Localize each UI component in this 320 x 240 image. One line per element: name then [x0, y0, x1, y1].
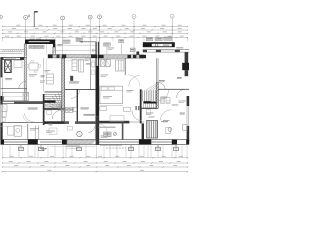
bottom witness line x=176: [175, 145, 177, 158]
txt living l1: [29, 74, 37, 76]
cab dining: [67, 126, 72, 130]
bottom wall pier e: [172, 140, 177, 145]
label box c1: [63, 40, 70, 43]
stair right wall right unit upper: [156, 58, 158, 83]
small icons bottom right: [104, 132, 112, 137]
txt hall l1: [85, 59, 91, 61]
stair right wall left unit: [62, 58, 65, 123]
bottom witness line x=2.5: [2, 145, 4, 158]
room label left bedroom: [5, 78, 12, 80]
top witness stub x=55: [54, 38, 56, 42]
utility box below wall at x=79: [77, 145, 82, 151]
bay window slit left unit: [29, 41, 50, 42]
pergola ticks: [2, 49, 23, 52]
bottom wall pier d: [139, 139, 151, 144]
txt kitchen b1: [30, 128, 39, 130]
utility box below wall at x=131: [129, 145, 134, 151]
bed left unit: [3, 92, 29, 100]
top witness stub x=96.5: [96, 38, 98, 42]
axis leader line at x=172.2: [171, 18, 173, 42]
long witness x46.8: [46, 38, 48, 55]
bay right jamb wall: [53, 44, 56, 55]
bay label 2: [34, 45, 39, 48]
top dimension line 4: [2, 37, 188, 39]
bottom witness line x=126: [125, 145, 127, 158]
tiny text above dashed line: [100, 144, 122, 147]
room label kitchen: [28, 108, 38, 110]
door arc right unit hall: [132, 111, 142, 121]
grid bubble 3 right: [98, 15, 102, 19]
txt right wall r: [179, 101, 187, 103]
txt room r1: [161, 97, 168, 99]
door arc right unit top: [158, 82, 166, 89]
level marker: [40, 149, 47, 152]
axis leader line at x=90.2: [89, 19, 91, 54]
txt top l mid: [58, 44, 64, 46]
bedroom bottom wall left: [1, 88, 28, 90]
hall label r3: [161, 120, 168, 123]
top dimension ticks row 3: [2, 33, 188, 34]
top dimension line 1: [2, 26, 188, 28]
door arc bottom room right: [99, 124, 107, 132]
bottom dimension ticks row 4: [2, 171, 188, 172]
bottom dimension texts row 1: [10, 155, 183, 158]
right wall door opening arc: [177, 89, 186, 98]
party wall edge lines: [96, 42, 99, 145]
left wall window upper: [1, 77, 3, 96]
round fixture right unit bottom: [168, 128, 172, 132]
bottom dimension line 2: [2, 162, 188, 164]
bottom witness line x=117: [116, 145, 118, 158]
room label hall centre: [84, 114, 96, 116]
hall bottom wall left unit: [1, 121, 96, 124]
txt bottom r1: [101, 136, 111, 138]
stair bottom wall left unit: [44, 108, 65, 110]
top wall band left unit: [48, 55, 97, 58]
stair left wall right unit: [140, 89, 142, 108]
bath wall x77 left unit: [77, 89, 78, 122]
top dimension texts row 1: [16, 24, 182, 27]
shaft block left bedroom: [5, 60, 11, 72]
bottom witness line x=148: [147, 145, 149, 158]
hall label r5: [172, 104, 179, 107]
round table left unit: [77, 131, 82, 136]
door arc dining left unit: [88, 126, 94, 132]
bay top wall left unit: [25, 40, 55, 45]
bay left jamb wall: [24, 44, 26, 58]
porch line bottom left: [50, 145, 96, 147]
bottom witness line x=144: [143, 145, 145, 158]
hall small rect right unit: [146, 110, 151, 115]
utility box below wall at x=41: [39, 145, 44, 151]
axis leader line at x=99.5: [99, 19, 101, 57]
bottom witness line x=38: [37, 145, 39, 158]
bottom dimension line 4: [2, 171, 188, 173]
wall x142 bottom right unit: [142, 123, 144, 139]
label box c2: [76, 38, 82, 41]
room label pok left: [81, 108, 89, 110]
bath fixtures left unit: [65, 107, 77, 112]
bottom witness line x=55: [54, 145, 56, 158]
bottom witness line x=28: [27, 145, 29, 158]
utility box below wall at x=21: [19, 145, 24, 151]
dining table living left: [27, 61, 41, 72]
wardrobe living left: [46, 58, 53, 84]
top witness stub x=155: [154, 38, 156, 42]
party wall upper: [96, 42, 98, 66]
axis leader line at x=134.0: [133, 19, 135, 55]
top witness stub x=144: [143, 38, 145, 42]
bottom wall window glass right1: [99, 141, 139, 142]
top band pier g: [133, 55, 136, 58]
keynote leader right: [107, 44, 121, 55]
top witness stub x=187.5: [187, 38, 189, 42]
bottom wall pier b: [28, 139, 38, 144]
bay label r4: [163, 45, 169, 47]
washbasin left unit: [2, 118, 6, 121]
bottom witness line x=110: [109, 145, 111, 158]
keynote box mid: [130, 48, 135, 51]
dashed hidden line: [106, 147, 126, 149]
bedroom bottom wall right unit: [97, 121, 145, 124]
basin right wall: [182, 125, 187, 130]
closet hall left unit b: [78, 60, 83, 73]
grid bubble 1 left: [24, 15, 28, 19]
bottom dimension ticks row 3: [2, 166, 188, 167]
kitchen door arc b: [23, 115, 31, 123]
marker A next to bubble 1: [28, 15, 29, 17]
utility box below wall at x=158: [156, 145, 161, 151]
terrace label right: [176, 47, 183, 48]
label box r4: [156, 38, 162, 41]
left wall lower segment: [0, 101, 2, 141]
stair bottom wall right unit: [142, 108, 158, 109]
bottom witness line x=151: [150, 145, 152, 158]
right wall window lower: [187, 106, 189, 126]
shower left unit: [2, 105, 8, 112]
left wall upper segment: [0, 57, 2, 77]
hall label left: [86, 63, 91, 64]
bedside rect left bedroom: [14, 61, 22, 68]
right wall upper segment: [182, 52, 189, 76]
vertical jamb x140 right unit: [140, 108, 142, 123]
bottom witness line x=66: [65, 145, 67, 158]
top witness stub x=79: [78, 38, 80, 42]
axis leader line at x=62.6: [62, 20, 64, 55]
grid bubble 3 left: [88, 15, 92, 19]
bath top wall left unit: [65, 88, 96, 90]
bottom witness line x=48: [47, 145, 49, 158]
bed right unit: [100, 86, 122, 104]
wc pair right bath: [161, 98, 171, 104]
long text line bottom right: [99, 127, 116, 128]
junction dot axis 3 right: [99, 26, 100, 27]
bottom witness line x=131: [130, 145, 132, 158]
txt bed r3: [127, 90, 134, 92]
tiny symbol near party wall: [92, 49, 94, 51]
bottom wall window glass left: [4, 141, 28, 142]
bottom witness line x=63.1: [62, 145, 64, 158]
bottom wall pier c: [62, 140, 67, 145]
top witness stub x=2.5: [2, 38, 4, 42]
label above bay b: [36, 38, 41, 41]
txt room r2: [163, 120, 170, 122]
left wall pier mid: [0, 96, 3, 101]
wc partition x90 left unit: [90, 58, 95, 89]
top dimension ticks row 4: [2, 37, 188, 38]
top dimension ticks row 2: [2, 29, 188, 30]
closet hall left unit a: [72, 60, 77, 71]
room label bottom right: [104, 133, 111, 135]
dark fixture hall left: [70, 76, 73, 81]
right wall lower segment: [187, 126, 190, 141]
bed foot line right unit: [100, 105, 123, 107]
door gap hall wall left: [69, 121, 75, 124]
small closet party wall right: [101, 60, 111, 67]
bottom witness line x=158: [157, 145, 159, 158]
carpet line x44: [43, 58, 45, 91]
top witness stub x=90.2: [89, 38, 91, 42]
txt living l3: [40, 81, 45, 83]
bay label 8 circle: [155, 44, 158, 47]
dresser right unit: [124, 107, 131, 111]
bottom witness line x=104: [103, 145, 105, 158]
section stub top bar: [34, 11, 38, 13]
txt kitchen b2: [46, 131, 55, 133]
top witness stub x=34.2: [33, 38, 35, 42]
wardrobe block right unit bottom: [147, 121, 158, 139]
stair handrail bar left unit: [45, 101, 56, 103]
party wall core: [96, 66, 99, 117]
room label bottom mid: [61, 109, 74, 111]
kitchen counter line left: [1, 125, 28, 127]
stair treads left unit: [45, 92, 62, 110]
hall label r4: [151, 100, 157, 103]
top dimension ticks row 1: [2, 26, 188, 27]
entry steps left unit: [66, 145, 78, 148]
top band pier f: [128, 55, 132, 58]
utility box below wall at x=176: [174, 145, 179, 151]
diameter symbol: [113, 132, 116, 135]
door jambs right unit: [136, 106, 140, 110]
txt stair r1: [146, 113, 154, 115]
sill under band right: [104, 59, 125, 61]
stair handrail bar right unit: [143, 101, 156, 103]
bedroom door arc right unit b: [128, 75, 140, 87]
room label living left: [41, 75, 45, 77]
label above bay a: [29, 38, 34, 41]
top dimension texts row 4: [5, 35, 184, 38]
bottom witness line x=72: [71, 145, 73, 158]
table under stair room: [49, 128, 57, 135]
bottom witness line x=187: [186, 145, 188, 158]
bottom dimension ticks row 2: [2, 162, 188, 163]
party wall lower: [96, 116, 99, 145]
kitchen counter verticals: [28, 124, 39, 140]
small cab right unit: [166, 128, 170, 134]
bottom witness line x=139: [138, 145, 140, 158]
top wall band right unit inner: [97, 55, 144, 58]
pergola edge lines top-left: [0, 49, 24, 53]
grid bubble 2 right: [132, 15, 136, 19]
top dimension texts row 2: [12, 27, 182, 30]
bottom witness line x=182: [181, 145, 183, 158]
label box r1: [104, 43, 111, 46]
section stub vertical: [33, 12, 35, 27]
bottom wall hatch mid: [67, 140, 96, 144]
hall door arc A right unit: [158, 90, 168, 101]
eave line 2 centre: [55, 49, 96, 51]
top witness stub x=25.6: [25, 38, 27, 42]
hall door arc B right unit: [160, 110, 171, 121]
stair right wall right unit: [156, 83, 158, 108]
room label 1.14: [48, 124, 52, 126]
grid bubble 1 right: [170, 14, 174, 18]
bottom witness line x=172: [171, 145, 173, 158]
skirting under band left: [66, 60, 96, 62]
axis leader line at x=25.6: [25, 19, 27, 41]
top band pier e: [97, 55, 104, 58]
vertical wall x24: [24, 58, 26, 103]
bottom witness line x=96.5: [96, 145, 98, 158]
top band pier b: [57, 54, 60, 58]
top band pier a: [48, 54, 53, 58]
stair door arc left unit: [52, 110, 61, 119]
wardrobe top right unit: [116, 58, 126, 75]
room label AB right: [177, 77, 182, 79]
txt bed r2: [101, 75, 109, 77]
bottom dimension texts row 3: [14, 164, 177, 167]
bottom dimension line 3: [2, 166, 188, 168]
nightstand a right unit: [100, 107, 106, 111]
bottom dimension line 1: [2, 157, 188, 159]
table cross left unit: [78, 132, 82, 136]
kitchen fixtures left unit: [8, 126, 22, 137]
desk right bedroom: [110, 116, 124, 122]
top dimension texts row 3: [8, 30, 182, 33]
top witness stub x=113: [112, 38, 114, 42]
room label +003 right: [159, 80, 165, 82]
wc left unit: [2, 112, 7, 117]
txt living l2: [45, 70, 51, 72]
label box r5: [164, 37, 172, 40]
right wall mid segment: [187, 96, 190, 106]
top dimension line 2: [2, 29, 188, 31]
bottom wall pier f: [186, 140, 189, 145]
bottom wall pier a: [1, 140, 5, 145]
partition x122 right unit bottom: [122, 123, 124, 139]
txt bed r1: [103, 96, 112, 98]
bottom dimension texts row 4: [47, 169, 143, 172]
room label hall left: [69, 82, 79, 84]
bottom wall window glass right2: [151, 141, 172, 142]
top band pier d: [91, 54, 97, 58]
chimney right unit: [136, 52, 139, 55]
wall y89 right unit: [158, 88, 189, 90]
bottom dimension ticks row 1: [2, 157, 188, 158]
terrace edge right unit: [143, 50, 190, 52]
txt top r mid: [108, 48, 115, 50]
bath door arc left unit: [71, 89, 80, 98]
bottom witness line x=19: [18, 145, 20, 158]
top wall left room w/ window: [1, 57, 25, 59]
bottom wall band line bot: [1, 143, 190, 145]
bottom wall window glass mid1: [40, 141, 62, 142]
kitchen door arc a: [25, 113, 34, 121]
room label H right: [180, 113, 185, 115]
wall below left bedroom: [1, 101, 45, 103]
bedroom door arc right unit: [129, 76, 140, 87]
bottom witness line x=35: [34, 145, 36, 158]
top band pier h: [139, 55, 146, 58]
bay label 1: [29, 45, 34, 48]
top dimension line 3: [2, 32, 188, 34]
hall label r2: [149, 116, 155, 119]
eave line 1 centre: [55, 44, 96, 46]
bottom wall band line top: [1, 139, 190, 141]
grid bubble axis edge: [0, 15, 2, 19]
leader arrow to party wall: [80, 41, 97, 43]
top witness stub x=99.5: [99, 38, 101, 42]
bottom dimension texts row 2: [9, 160, 181, 163]
label box r3: [146, 38, 152, 41]
bay top wall right unit: [143, 42, 175, 47]
grid bubble 2 left: [61, 16, 65, 20]
door arc bedroom left: [19, 81, 27, 88]
bay label 3: [39, 45, 44, 48]
bay window slit right unit: [152, 44, 172, 47]
stair treads right unit: [143, 84, 156, 108]
shower tray under stair: [47, 110, 52, 114]
bottom witness line x=86: [85, 145, 87, 158]
wall x43 lower: [43, 94, 45, 125]
top band pier c: [62, 54, 66, 58]
bottom witness line x=163: [162, 145, 164, 158]
bottom witness line x=10: [9, 145, 11, 158]
label box r2: [119, 40, 124, 43]
